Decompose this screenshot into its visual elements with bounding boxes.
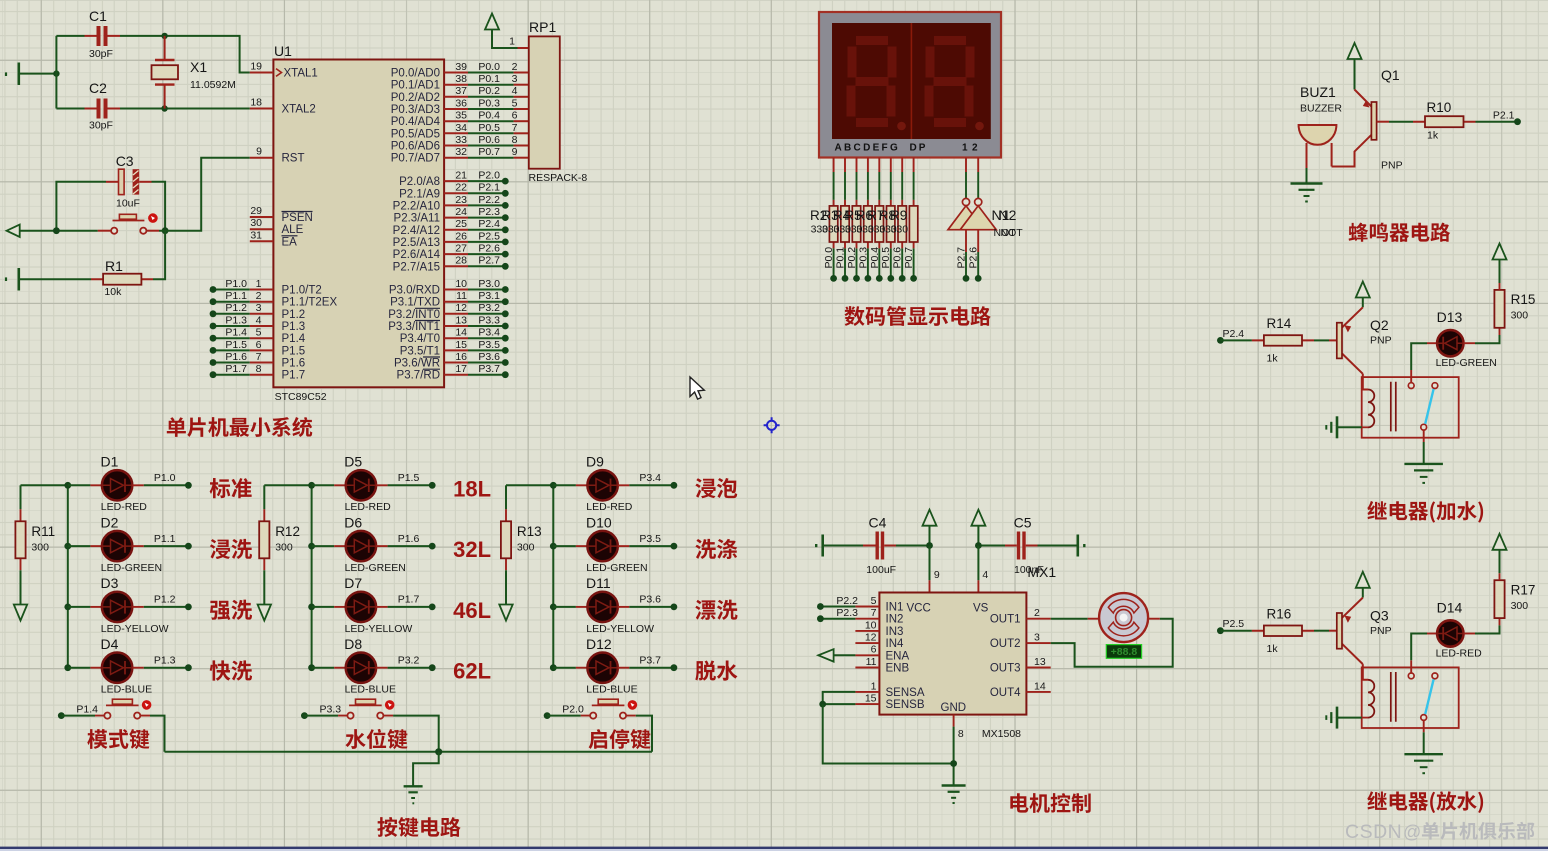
svg-text:PSEN: PSEN — [282, 212, 313, 224]
svg-text:P2.6: P2.6 — [478, 243, 500, 255]
svg-text:RESPACK-8: RESPACK-8 — [529, 172, 588, 184]
bottom window edge — [0, 847, 1548, 849]
wire R8 to net P0.6 — [901, 248, 903, 278]
svg-text:P2.3/A11: P2.3/A11 — [394, 213, 440, 225]
svg-text:P1.6: P1.6 — [282, 358, 306, 370]
svg-text:12: 12 — [962, 143, 982, 154]
svg-text:D9: D9 — [586, 454, 604, 470]
svg-text:NOT: NOT — [1001, 227, 1024, 239]
svg-text:300: 300 — [1511, 310, 1529, 322]
svg-text:P3.5/T1: P3.5/T1 — [400, 345, 440, 357]
node P2.1 terminal — [1514, 118, 1521, 125]
svg-text:P0.5: P0.5 — [478, 122, 500, 134]
node ground junction — [950, 760, 957, 767]
resistor R11 300 — [20, 485, 22, 509]
svg-text:LED-YELLOW: LED-YELLOW — [586, 623, 654, 635]
svg-text:R14: R14 — [1267, 316, 1292, 331]
LED D8 LED-BLUE — [312, 667, 335, 669]
pin 25 P2.4/A12 / net P2.4 — [444, 229, 468, 231]
pin 27 P2.6/A14 / net P2.6 — [444, 253, 468, 255]
node P1.2 terminal — [185, 604, 192, 611]
svg-text:D1: D1 — [101, 454, 119, 470]
svg-text:STC89C52: STC89C52 — [275, 391, 327, 403]
node bus/D11 junction — [550, 604, 557, 611]
svg-text:MX1508: MX1508 — [982, 728, 1021, 740]
pin 6 P1.5 / net P1.5 — [213, 349, 250, 351]
wire common bus — [165, 751, 653, 753]
svg-text:P0.7/AD7: P0.7/AD7 — [391, 153, 440, 165]
crystal X1 — [152, 36, 236, 109]
svg-text:1: 1 — [509, 36, 515, 48]
svg-text:P0.5/AD5: P0.5/AD5 — [391, 128, 440, 140]
wire P2.5 to R16 — [1220, 630, 1252, 632]
svg-text:10: 10 — [865, 619, 877, 631]
pin 1 SENSA — [855, 691, 879, 693]
node bus/D10 junction — [550, 543, 557, 550]
svg-text:9: 9 — [934, 569, 940, 581]
LED D14 LED-RED — [1437, 620, 1463, 646]
label 漂洗 — [695, 600, 737, 620]
wire relay pole to ground — [1423, 430, 1425, 442]
svg-text:62L: 62L — [453, 659, 491, 684]
LED D6 LED-GREEN — [312, 545, 335, 547]
wire coil to ground — [1337, 426, 1362, 428]
svg-text:PNP: PNP — [1370, 335, 1392, 347]
svg-text:P2.7: P2.7 — [956, 247, 968, 269]
svg-text:P0.6: P0.6 — [478, 134, 500, 146]
pin 18 XTAL2 — [250, 108, 274, 110]
node bus/D7 junction — [308, 604, 315, 611]
node bus/D5 junction — [308, 482, 315, 489]
wire D11 to net P3.6 — [618, 606, 630, 608]
wire R7 to net P0.5 — [890, 248, 892, 278]
LED D7 LED-YELLOW — [312, 606, 335, 608]
svg-text:PNP: PNP — [1381, 160, 1403, 172]
svg-text:P1.0: P1.0 — [225, 278, 247, 290]
svg-text:D12: D12 — [586, 636, 612, 652]
power arrow (VS) — [971, 510, 985, 526]
svg-text:8: 8 — [512, 134, 518, 146]
pin 28 P2.7/A15 / net P2.7 — [444, 265, 468, 267]
svg-text:P3.4: P3.4 — [639, 472, 661, 484]
wire D3 to net P1.2 — [132, 606, 144, 608]
input terminal arrow (reset row) — [7, 225, 20, 237]
svg-text:RP1: RP1 — [529, 19, 556, 35]
svg-text:15: 15 — [865, 693, 877, 705]
pin 8 P1.7 / net P1.7 — [213, 374, 250, 376]
pin 23 P2.2/A10 / net P2.2 — [444, 204, 468, 206]
relay core — [1391, 672, 1396, 722]
NOT gate N1 — [962, 198, 969, 205]
ground (relay pole) — [1404, 754, 1443, 773]
svg-text:27: 27 — [455, 243, 467, 255]
svg-text:P3.6: P3.6 — [639, 594, 661, 606]
svg-text:D4: D4 — [101, 636, 119, 652]
svg-text:5: 5 — [256, 327, 262, 339]
wire display segment A to resistor R2 — [833, 158, 835, 173]
label 水位键 — [345, 729, 407, 749]
relay coil — [1368, 680, 1374, 718]
wire LED bus — [21, 485, 68, 667]
pin 37 P0.2/AD2 / net P0.2 / RP1 pin 4 — [444, 96, 468, 98]
svg-text:P2.0/A8: P2.0/A8 — [399, 176, 440, 188]
svg-text:P3.1: P3.1 — [478, 290, 500, 302]
svg-text:16: 16 — [455, 351, 467, 363]
svg-text:4: 4 — [512, 85, 518, 97]
wire GND pin 8 — [953, 715, 955, 727]
node P2.0 terminal — [544, 712, 551, 719]
wire display segment H to resistor R9 — [913, 158, 915, 173]
pin 30 ALE — [250, 228, 274, 230]
svg-text:30pF: 30pF — [89, 48, 113, 60]
wire D14 to R17 — [1464, 633, 1476, 635]
LED D11 LED-YELLOW — [553, 606, 576, 608]
svg-text:OUT3: OUT3 — [990, 663, 1021, 675]
wire C2 to XTAL2 — [120, 108, 250, 110]
pin 22 P2.1/A9 / net P2.1 — [444, 192, 468, 194]
wire P2.4 to R14 — [1220, 339, 1252, 341]
svg-text:C3: C3 — [116, 153, 134, 169]
svg-text:5: 5 — [871, 595, 877, 607]
pin 13 OUT3 — [1026, 667, 1050, 669]
svg-text:13: 13 — [455, 314, 467, 326]
output arrow (down) — [14, 605, 27, 621]
svg-text:D3: D3 — [101, 575, 119, 591]
pin 21 P2.0/A8 / net P2.0 — [444, 180, 468, 182]
node P0.7 terminal — [910, 275, 917, 282]
node P0.5 terminal — [887, 275, 894, 282]
input terminal arrow (ENA) — [818, 649, 833, 661]
svg-text:2: 2 — [256, 290, 262, 302]
pin 11 P3.1/TXD / net P3.1 — [444, 301, 468, 303]
wire R14 to Q2 base — [1314, 339, 1329, 341]
resistor R6 330 — [878, 200, 880, 249]
buzzer BUZ1 — [1299, 84, 1343, 168]
pin 34 P0.5/AD5 / net P0.5 / RP1 pin 7 — [444, 132, 468, 134]
wire C3 left to reset bus — [56, 182, 106, 231]
pin 2 OUT1 — [1026, 618, 1050, 620]
svg-text:LED-GREEN: LED-GREEN — [586, 562, 647, 574]
svg-text:P3.5: P3.5 — [478, 339, 500, 351]
LED D3 LED-YELLOW — [68, 606, 91, 608]
wire Q1 base to R10 — [1389, 121, 1413, 123]
wire display pin 1 to NOT gate N1 — [965, 158, 967, 173]
svg-text:34: 34 — [455, 122, 467, 134]
wire display segment G to resistor R8 — [901, 158, 903, 173]
7-seg digit 2 segments — [934, 36, 966, 45]
svg-text:SENSA: SENSA — [886, 687, 925, 699]
wire display segment C to resistor R4 — [856, 158, 858, 173]
svg-text:P0.4: P0.4 — [478, 110, 500, 122]
pin 36 P0.3/AD3 / net P0.3 / RP1 pin 5 — [444, 108, 468, 110]
node P1.7 terminal — [429, 604, 436, 611]
svg-text:LED-BLUE: LED-BLUE — [586, 684, 637, 696]
svg-text:P1.7: P1.7 — [282, 370, 306, 382]
pin 3 OUT2 — [1026, 642, 1050, 644]
svg-text:P1.2: P1.2 — [282, 309, 306, 321]
svg-text:P2.2: P2.2 — [478, 194, 500, 206]
svg-text:P3.3: P3.3 — [319, 704, 341, 716]
svg-text:P2.5: P2.5 — [478, 230, 500, 242]
resistor R13 300 — [505, 485, 507, 509]
svg-text:10k: 10k — [104, 286, 122, 298]
capacitor C2 — [56, 80, 120, 132]
node reset bus left — [53, 227, 60, 234]
svg-text:P3.6/WR: P3.6/WR — [394, 358, 440, 370]
output arrow (down) — [258, 605, 271, 621]
svg-text:38: 38 — [455, 73, 467, 85]
svg-text:IN3: IN3 — [886, 626, 904, 638]
svg-text:DP: DP — [910, 143, 928, 154]
title 单片机最小系统 — [167, 417, 312, 437]
pin 10 P3.0/RXD / net P3.0 — [444, 289, 468, 291]
svg-text:P1.1/T2EX: P1.1/T2EX — [282, 297, 338, 309]
svg-text:36: 36 — [455, 97, 467, 109]
wire D6 to net P1.6 — [376, 545, 388, 547]
svg-text:7: 7 — [512, 122, 518, 134]
svg-text:P0.2: P0.2 — [846, 247, 858, 269]
svg-text:9: 9 — [512, 146, 518, 158]
svg-text:LED-BLUE: LED-BLUE — [345, 684, 396, 696]
relay contact pins — [1408, 673, 1414, 679]
svg-text:P0.6/AD6: P0.6/AD6 — [391, 141, 440, 153]
svg-text:46L: 46L — [453, 598, 491, 623]
svg-text:XTAL1: XTAL1 — [284, 68, 318, 80]
svg-text:21: 21 — [455, 170, 467, 182]
svg-text:P2.4/A12: P2.4/A12 — [393, 225, 440, 237]
power arrow (R15) — [1493, 244, 1507, 260]
svg-text:P2.2/A10: P2.2/A10 — [393, 200, 440, 212]
wire D9 to net P3.4 — [618, 484, 630, 486]
svg-text:LED-YELLOW: LED-YELLOW — [101, 623, 169, 635]
wire R1 right to reset bus — [153, 231, 165, 280]
wire R13 to output arrow — [505, 570, 507, 604]
node P1.6 terminal — [429, 543, 436, 550]
node P0.0 terminal — [830, 275, 837, 282]
label 启停键 — [589, 729, 651, 749]
title 继电器(放水) — [1367, 791, 1483, 813]
chip U2 MX1508 body — [879, 593, 1026, 715]
svg-text:IN4: IN4 — [886, 638, 905, 650]
svg-text:CSDN: CSDN — [1345, 821, 1402, 843]
svg-text:11: 11 — [866, 656, 877, 668]
label 强洗 — [210, 600, 252, 620]
wire button2 to common — [393, 716, 439, 752]
svg-text:LED-RED: LED-RED — [1436, 647, 1483, 659]
node bus/D6 junction — [308, 543, 315, 550]
svg-text:P0.0: P0.0 — [823, 247, 835, 269]
svg-text:13: 13 — [1034, 656, 1046, 668]
svg-text:P2.7: P2.7 — [478, 255, 500, 267]
capacitor C1 — [56, 8, 120, 60]
resistor R3 330 — [844, 200, 846, 249]
node P3.4 terminal — [671, 482, 678, 489]
svg-text:ABCDEFG: ABCDEFG — [835, 143, 901, 154]
node bus/D4 junction — [64, 664, 71, 671]
svg-text:P3.3: P3.3 — [478, 314, 500, 326]
output arrow (down) — [499, 605, 512, 621]
node P1.5 terminal — [429, 482, 436, 489]
svg-text:OUT4: OUT4 — [990, 687, 1021, 699]
resistor R12 300 — [263, 485, 265, 509]
label 浸泡 — [695, 478, 737, 498]
svg-text:300: 300 — [275, 542, 293, 554]
svg-text:7: 7 — [871, 607, 877, 619]
pin 4 P1.3 / net P1.3 — [213, 325, 250, 327]
label 模式键 — [87, 729, 149, 749]
wire common to ground — [413, 752, 439, 787]
power arrow (R17) — [1493, 534, 1507, 550]
svg-text:R9: R9 — [890, 208, 907, 223]
wire R5 to net P0.3 — [867, 248, 869, 278]
svg-text:P1.4: P1.4 — [282, 333, 306, 345]
svg-text:11: 11 — [456, 290, 467, 302]
label 快洗 — [210, 660, 252, 680]
wire C1 to XTAL1 — [120, 36, 250, 73]
svg-text:31: 31 — [250, 229, 262, 241]
NOT gate N2 — [975, 198, 982, 205]
svg-text:LED-GREEN: LED-GREEN — [345, 562, 406, 574]
resistor R17 300 — [1494, 580, 1504, 618]
svg-text:R12: R12 — [275, 524, 300, 539]
svg-text:P3.5: P3.5 — [639, 533, 661, 545]
svg-text:29: 29 — [250, 205, 262, 217]
power arrow (buzzer) — [1348, 43, 1362, 59]
pin 12 IN4 — [855, 642, 879, 644]
relay switch blade — [1425, 389, 1433, 424]
svg-text:P2.5: P2.5 — [1223, 618, 1245, 630]
wire display segment F to resistor R7 — [890, 158, 892, 173]
svg-text:C2: C2 — [89, 80, 107, 96]
pin 15 SENSB — [855, 703, 879, 705]
pin 9 RST — [250, 157, 274, 159]
wire Q3 collector to relay coil — [1363, 664, 1368, 680]
svg-text:30: 30 — [250, 217, 262, 229]
push button (模式键) — [61, 715, 95, 717]
node P3.7 terminal — [671, 664, 678, 671]
svg-text:P1.7: P1.7 — [225, 363, 247, 375]
wire coil to ground — [1337, 717, 1362, 719]
power arrow (VCC) — [923, 510, 937, 526]
ground (buttons) — [404, 786, 423, 803]
ground terminal (left of C1/C2) — [6, 63, 56, 86]
wire D7 to net P1.7 — [376, 606, 388, 608]
svg-text:LED-YELLOW: LED-YELLOW — [345, 623, 413, 635]
svg-text:33: 33 — [455, 134, 467, 146]
svg-text:P1.3: P1.3 — [154, 655, 176, 667]
svg-text:VCC: VCC — [907, 603, 931, 615]
svg-text:P3.4/T0: P3.4/T0 — [400, 333, 440, 345]
svg-text:U1: U1 — [274, 43, 292, 59]
svg-text:P2.3: P2.3 — [478, 206, 500, 218]
svg-text:P1.6: P1.6 — [225, 351, 247, 363]
svg-text:P2.0: P2.0 — [478, 170, 500, 182]
svg-text:3: 3 — [512, 73, 518, 85]
svg-text:R13: R13 — [517, 524, 542, 539]
wire LED bus — [264, 485, 311, 667]
LED D10 LED-GREEN — [553, 545, 576, 547]
svg-text:P2.2: P2.2 — [836, 595, 858, 607]
svg-text:P2.4: P2.4 — [478, 218, 500, 230]
resistor R2 330 — [833, 200, 835, 249]
label 标准 — [210, 478, 252, 498]
svg-text:12: 12 — [865, 632, 877, 644]
svg-text:4: 4 — [982, 569, 988, 581]
svg-text:P3.6: P3.6 — [478, 351, 500, 363]
wire N1 output to net P2.7 — [965, 230, 967, 252]
power arrow (RP1 pin1) — [485, 14, 518, 49]
svg-text:OUT2: OUT2 — [990, 638, 1021, 650]
node P1.3 terminal — [185, 664, 192, 671]
wire D1 to net P1.0 — [132, 484, 144, 486]
resistor pack RP1 body — [529, 36, 560, 168]
svg-text:25: 25 — [455, 218, 467, 230]
svg-text:1: 1 — [871, 680, 877, 692]
pin 7 P1.6 / net P1.6 — [213, 362, 250, 364]
svg-text:BUZZER: BUZZER — [1300, 103, 1342, 115]
node bus/D9 junction — [550, 482, 557, 489]
wire net P2.2 to IN1 — [820, 606, 855, 608]
svg-text:P2.1: P2.1 — [1493, 110, 1515, 122]
svg-text:P1.5: P1.5 — [282, 345, 306, 357]
node P1.1 terminal — [185, 543, 192, 550]
resistor R5 330 — [867, 200, 869, 249]
pin 14 OUT4 — [1026, 691, 1050, 693]
LED D5 LED-RED — [312, 484, 335, 486]
relay core — [1391, 382, 1396, 432]
pin 38 P0.1/AD1 / net P0.1 / RP1 pin 3 — [444, 84, 468, 86]
wire display segment E to resistor R6 — [878, 158, 880, 173]
pin 35 P0.4/AD4 / net P0.4 / RP1 pin 6 — [444, 120, 468, 122]
wire R9 to net P0.7 — [913, 248, 915, 278]
node P1.0 terminal — [185, 482, 192, 489]
svg-text:ENB: ENB — [886, 663, 910, 675]
wire VCC to pin 9 — [929, 546, 931, 581]
pin 11 ENB — [855, 667, 879, 669]
svg-text:2: 2 — [512, 61, 518, 73]
wire R16 to Q3 base — [1314, 630, 1329, 632]
svg-text:P0.6: P0.6 — [892, 247, 904, 269]
svg-text:P2.1: P2.1 — [478, 182, 500, 194]
svg-text:28: 28 — [455, 255, 467, 267]
wire button1 to common — [150, 716, 165, 752]
svg-text:7: 7 — [256, 351, 262, 363]
svg-text:P1.6: P1.6 — [398, 533, 420, 545]
svg-text:P0.3/AD3: P0.3/AD3 — [391, 104, 440, 116]
svg-text:P3.7: P3.7 — [639, 655, 661, 667]
svg-text:ALE: ALE — [282, 224, 304, 236]
svg-text:R15: R15 — [1511, 292, 1536, 307]
relay RL body — [1362, 377, 1459, 438]
svg-text:Q1: Q1 — [1381, 67, 1400, 83]
capacitor C4 100uF — [816, 535, 823, 557]
svg-text:3: 3 — [1034, 632, 1040, 644]
svg-text:P3.4: P3.4 — [478, 327, 500, 339]
svg-text:ENA: ENA — [886, 650, 910, 662]
svg-text:LED-GREEN: LED-GREEN — [1436, 357, 1497, 369]
svg-text:17: 17 — [455, 363, 467, 375]
svg-text:P2.0: P2.0 — [562, 704, 584, 716]
relay coil — [1368, 390, 1374, 428]
svg-text:10uF: 10uF — [116, 198, 140, 210]
wire net P2.3 to IN2 — [820, 618, 855, 620]
svg-text:RST: RST — [282, 153, 305, 165]
svg-text:VS: VS — [973, 603, 989, 615]
svg-text:LED-GREEN: LED-GREEN — [101, 562, 162, 574]
resistor R9 330 — [913, 200, 915, 249]
svg-text:6: 6 — [256, 339, 262, 351]
svg-text:15: 15 — [455, 339, 467, 351]
